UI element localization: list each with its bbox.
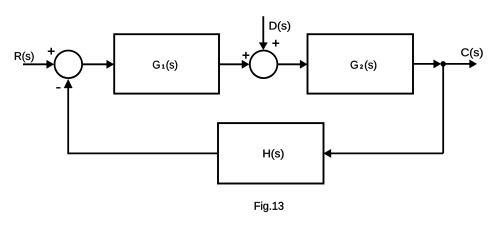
node C(s) output label: [461, 48, 482, 58]
arrowhead into S1 bottom: [64, 79, 72, 88]
arrowhead C(s) output: [470, 60, 477, 68]
summing junction S1: [55, 51, 83, 79]
wire S1 to G1: [82, 63, 108, 65]
plus sign at S2 top input: [272, 40, 279, 47]
arrowhead into H block: [324, 149, 331, 157]
takeoff node junction dot: [441, 61, 446, 66]
block G2: [308, 34, 414, 93]
wire node to C(s): [443, 63, 470, 65]
minus sign at S1 feedback input: [56, 87, 60, 89]
wire G2 output to takeoff node: [413, 63, 435, 65]
caption Fig.13: [255, 202, 284, 212]
arrowhead into summing junction S2: [242, 60, 249, 68]
wire feedback right segment: [330, 152, 444, 154]
wire R(s) input: [23, 63, 49, 65]
plus sign at S1 input: [48, 48, 55, 55]
block H: [218, 123, 324, 183]
arrowhead into G2: [300, 60, 307, 68]
wire riser up to S1: [67, 87, 69, 155]
wire G1 to S2: [219, 63, 244, 65]
wire feedback left segment: [68, 152, 218, 154]
wire node down to feedback level: [442, 64, 444, 153]
arrowhead D into S2: [259, 43, 267, 50]
plus sign at S2 left input: [243, 52, 250, 59]
label G1(s): [153, 60, 177, 70]
label H(s): [263, 149, 283, 159]
arrowhead into summing junction S1: [47, 60, 54, 68]
node R(s) input label: [15, 52, 34, 62]
node D(s) disturbance label: [270, 21, 291, 31]
arrowhead into takeoff node: [434, 60, 441, 68]
block G1: [114, 34, 219, 93]
arrowhead into G1: [107, 60, 114, 68]
wire D(s) into S2: [262, 16, 264, 44]
wire S2 to G2: [278, 63, 302, 65]
label G2(s): [351, 61, 377, 71]
summing junction S2: [250, 51, 278, 79]
